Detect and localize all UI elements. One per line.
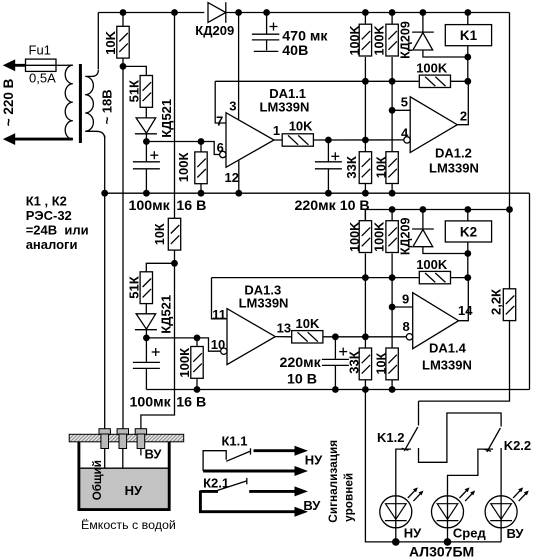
svg-text:РЭС-32: РЭС-32: [26, 208, 72, 223]
svg-text:ВУ: ВУ: [507, 526, 525, 541]
pin 3: [229, 13, 238, 120]
resistor R17 100K pullup4: [373, 210, 399, 253]
wire ground bus right drop: [529, 193, 531, 389]
relay K2: [445, 210, 491, 278]
relay K1: [445, 13, 491, 82]
LED HL3 VU: [485, 487, 529, 542]
svg-text:K1.2: K1.2: [377, 430, 404, 445]
wire LED ground drop: [365, 390, 501, 542]
svg-text:16 В: 16 В: [176, 395, 206, 411]
LED HL2 Sred: [432, 487, 487, 542]
resistor R9 100K feedback: [416, 61, 468, 88]
resistor R12 100K lower: [177, 338, 203, 390]
svg-text:100K: 100K: [416, 257, 448, 272]
svg-text:11: 11: [212, 307, 226, 322]
svg-text:АЛ307БМ: АЛ307БМ: [409, 544, 474, 560]
svg-text:10K: 10K: [289, 119, 313, 134]
resistor R18 100K feedback lower: [416, 257, 468, 284]
diode VD1 KD209: [195, 2, 234, 38]
svg-text:100K: 100K: [373, 25, 387, 55]
svg-text:5: 5: [401, 95, 408, 110]
capacitor C1 100mk 16V: [129, 142, 207, 215]
capacitor 470mk 40V: [252, 13, 329, 60]
resistor R15 10K vertical lower: [374, 254, 398, 390]
svg-text:Ёмкость с водой: Ёмкость с водой: [81, 518, 176, 532]
svg-text:100мк: 100мк: [129, 198, 171, 214]
wire +V drop right side: [509, 13, 511, 290]
wire ref line pin7: [215, 80, 418, 82]
resistor R1 10K: [103, 13, 129, 67]
svg-text:100K: 100K: [416, 61, 448, 76]
svg-text:100K: 100K: [373, 222, 387, 252]
junction dots lower: [143, 206, 513, 393]
svg-text:КД521: КД521: [158, 295, 173, 334]
svg-text:K2.2: K2.2: [504, 438, 531, 453]
contact K1.2: [377, 401, 501, 496]
svg-text:K1: K1: [460, 28, 478, 43]
wire secondary bottom down: [104, 136, 106, 435]
svg-text:DA1.4: DA1.4: [429, 341, 467, 356]
svg-text:2: 2: [460, 109, 467, 124]
svg-text:КД209: КД209: [195, 23, 234, 38]
svg-text:100K: 100K: [348, 25, 362, 55]
op-amp DA1.2: [410, 97, 479, 176]
svg-text:К1 , К2: К1 , К2: [26, 194, 67, 209]
electrode bolt VU: [135, 429, 162, 462]
transformer T1 secondary ~18V: [85, 70, 114, 139]
op-amp DA1.3: [227, 283, 288, 365]
electrode bolt NU: [117, 429, 128, 498]
svg-text:Сигнализация: Сигнализация: [326, 440, 340, 523]
pin 2 output: [457, 81, 468, 124]
pin 12: [225, 160, 239, 193]
capacitor C2 220mk 10V: [295, 140, 370, 214]
svg-text:~ 18В: ~ 18В: [100, 89, 115, 124]
wire ref line pin11: [212, 277, 419, 279]
wire pin10 net: [146, 338, 220, 351]
resistor R3 100K: [176, 142, 207, 194]
svg-text:10: 10: [211, 337, 225, 352]
diode VD5 KD209 lower: [399, 210, 468, 256]
svg-text:100К: 100К: [177, 348, 192, 378]
svg-text:10К: 10К: [374, 156, 388, 178]
svg-text:НУ: НУ: [125, 483, 143, 498]
wire 220V line1 arrow: [3, 59, 26, 71]
wire junction to R11: [146, 263, 174, 272]
resistor R4 10K output DA1.1: [273, 119, 404, 147]
capacitor C3 100mk 16V lower: [130, 338, 207, 411]
svg-text:6: 6: [217, 140, 224, 155]
svg-text:100К: 100К: [176, 153, 191, 183]
svg-text:ВУ: ВУ: [145, 447, 163, 462]
svg-text:10 В: 10 В: [287, 371, 317, 387]
wire secondary top to bus: [97, 13, 99, 70]
wire ground bus upper: [105, 192, 530, 194]
svg-text:Общий: Общий: [91, 460, 104, 500]
resistor R11 51K lower: [126, 272, 152, 314]
svg-text:K2: K2: [460, 224, 477, 239]
svg-text:10К: 10К: [153, 223, 167, 245]
pin 14 output: [458, 278, 473, 321]
resistor R7 100K pullup1: [348, 13, 372, 57]
diode VD2 KD521: [135, 99, 174, 142]
svg-text:33К: 33К: [344, 156, 359, 178]
pin 6: [217, 140, 226, 158]
svg-text:220мк: 220мк: [280, 355, 322, 371]
wire signal arrow VU2: [200, 491, 308, 517]
pin 10: [211, 337, 227, 355]
resistor R10 10K lower: [153, 218, 181, 250]
op-amp DA1.1: [226, 86, 309, 167]
wire +V rail lower: [365, 210, 509, 221]
tank lid: [69, 434, 184, 442]
pin 11: [212, 278, 228, 322]
wire pin6 net: [146, 142, 219, 155]
svg-text:220мк 10 В: 220мк 10 В: [295, 198, 370, 214]
wire R1 bottom to sensor NU (long vertical): [122, 66, 124, 434]
svg-text:КД209: КД209: [399, 21, 413, 59]
pin 4: [401, 125, 410, 143]
svg-text:КД521: КД521: [159, 99, 174, 138]
svg-text:10K: 10K: [103, 30, 118, 54]
pin 9: [392, 291, 413, 307]
svg-text:0,5A: 0,5A: [29, 70, 56, 85]
svg-text:10К: 10К: [374, 353, 388, 375]
svg-text:~ 220 В: ~ 220 В: [1, 78, 16, 126]
svg-text:16 В: 16 В: [176, 198, 206, 214]
transformer core: [79, 64, 82, 143]
node K1 K2 relay note: [26, 194, 89, 252]
wire ground bus lower: [146, 389, 529, 391]
svg-text:К1.1: К1.1: [222, 434, 248, 449]
svg-text:LM339N: LM339N: [239, 295, 289, 310]
wire signal arrow NU2: [203, 466, 308, 476]
svg-text:LM339N: LM339N: [422, 358, 472, 373]
svg-text:51К: 51К: [126, 276, 141, 298]
wire signal arrow VU1: [249, 486, 321, 512]
fuse Fu1: [26, 43, 57, 86]
svg-text:DA1.2: DA1.2: [435, 146, 472, 161]
wire 220V line2 arrow: [3, 133, 73, 145]
resistor R13 10K output DA1.3: [275, 316, 406, 343]
resistor R5 33K: [344, 57, 371, 193]
wire long vertical to VU sensor: [141, 13, 175, 435]
svg-text:470 мк: 470 мк: [282, 28, 328, 44]
svg-text:LM339N: LM339N: [260, 100, 310, 115]
diode VD4 KD521 lower: [135, 295, 174, 338]
svg-text:8: 8: [403, 319, 410, 334]
svg-text:33К: 33К: [347, 351, 362, 373]
pin 8: [403, 319, 413, 340]
wire junction to R2: [123, 66, 146, 75]
svg-text:аналоги: аналоги: [26, 237, 78, 252]
pin 7: [215, 81, 226, 128]
contact K2.2: [448, 428, 532, 496]
svg-text:12: 12: [225, 170, 239, 185]
svg-text:=24В или: =24В или: [26, 222, 89, 237]
svg-text:13: 13: [277, 321, 291, 336]
svg-text:3: 3: [229, 98, 236, 113]
resistor R14 33K lower: [347, 254, 372, 390]
electrode bolt common: [99, 429, 110, 506]
svg-text:LM339N: LM339N: [429, 160, 479, 175]
diode VD3 KD209 vertical: [399, 13, 468, 59]
resistor R16 100K pullup3: [348, 210, 372, 253]
svg-text:1: 1: [273, 123, 280, 138]
node signal caption: [326, 440, 355, 523]
transformer T1 primary: [56, 65, 73, 139]
svg-text:10K: 10K: [296, 316, 320, 331]
pin 5: [392, 95, 410, 111]
op-amp DA1.4: [413, 293, 472, 373]
svg-text:100мк: 100мк: [130, 395, 172, 411]
wire top +V bus: [98, 12, 509, 14]
svg-text:7: 7: [216, 114, 223, 129]
svg-text:40В: 40В: [282, 43, 308, 59]
tank body with water: [78, 442, 171, 511]
svg-text:51К: 51К: [126, 80, 141, 102]
contact K2.1: [200, 476, 246, 492]
svg-text:Fu1: Fu1: [29, 43, 51, 58]
svg-text:КД209: КД209: [399, 217, 413, 255]
resistor R8 100K pullup2: [373, 13, 399, 57]
resistor R2 51K: [126, 76, 152, 118]
svg-text:НУ: НУ: [305, 452, 323, 467]
svg-text:уровней: уровней: [341, 473, 355, 522]
wire signal arrow NU1: [254, 446, 324, 468]
resistor R19 2.2K: [489, 289, 516, 321]
svg-text:4: 4: [401, 125, 409, 140]
svg-text:100K: 100K: [348, 222, 362, 252]
svg-text:9: 9: [402, 291, 409, 306]
svg-text:Сред: Сред: [453, 526, 487, 541]
junction dots bottom rail: [392, 538, 451, 546]
junction dots upper: [101, 9, 471, 197]
capacitor C4 220mk 10V lower: [280, 337, 349, 390]
resistor R6 10K vertical: [374, 57, 398, 193]
svg-text:ВУ: ВУ: [303, 498, 321, 513]
svg-text:14: 14: [458, 303, 473, 318]
svg-text:НУ: НУ: [404, 526, 422, 541]
svg-text:2,2К: 2,2К: [489, 289, 504, 315]
wire 2.2K to contacts rail: [419, 321, 510, 402]
LED HL1 NU: [380, 487, 424, 542]
contact K1.1: [203, 434, 250, 472]
